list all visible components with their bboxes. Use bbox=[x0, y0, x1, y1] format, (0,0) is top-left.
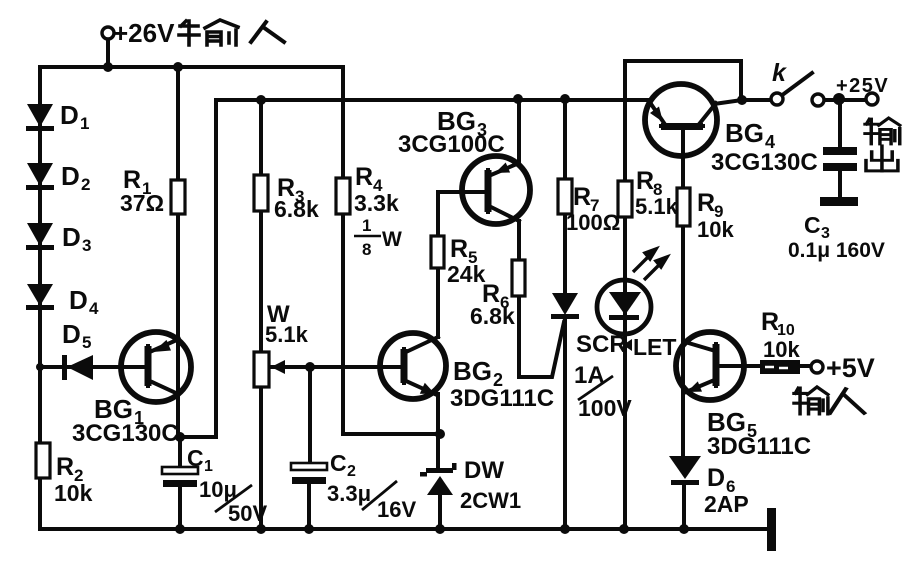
svg-text:D: D bbox=[707, 464, 725, 492]
svg-text:24k: 24k bbox=[447, 261, 486, 287]
svg-text:2: 2 bbox=[81, 175, 90, 194]
svg-text:2: 2 bbox=[347, 463, 356, 480]
svg-text:BG: BG bbox=[453, 356, 492, 386]
svg-text:2CW1: 2CW1 bbox=[460, 488, 521, 513]
svg-text:D: D bbox=[61, 161, 80, 191]
svg-text:R: R bbox=[355, 163, 373, 191]
svg-text:100Ω: 100Ω bbox=[566, 210, 620, 235]
svg-text:D: D bbox=[62, 222, 81, 252]
svg-text:SCR: SCR bbox=[576, 331, 627, 358]
svg-text:10k: 10k bbox=[763, 337, 800, 362]
svg-text:1: 1 bbox=[204, 458, 213, 475]
svg-text:k: k bbox=[772, 59, 787, 87]
svg-text:4: 4 bbox=[89, 299, 99, 318]
svg-text:C: C bbox=[187, 445, 204, 471]
svg-text:3CG130C: 3CG130C bbox=[72, 420, 179, 447]
svg-text:1A: 1A bbox=[574, 362, 605, 389]
svg-text:3DG111C: 3DG111C bbox=[450, 385, 554, 412]
svg-text:3: 3 bbox=[82, 236, 91, 255]
svg-text:50V: 50V bbox=[228, 501, 267, 526]
svg-text:C: C bbox=[804, 212, 821, 238]
svg-text:0.1μ 160V: 0.1μ 160V bbox=[788, 239, 885, 262]
svg-text:+5V: +5V bbox=[826, 353, 875, 383]
svg-text:+25V: +25V bbox=[836, 75, 889, 97]
svg-text:3CG100C: 3CG100C bbox=[398, 131, 505, 158]
svg-text:D: D bbox=[60, 100, 79, 130]
svg-text:37Ω: 37Ω bbox=[120, 190, 164, 216]
svg-text:3.3k: 3.3k bbox=[354, 190, 399, 216]
svg-text:10μ: 10μ bbox=[199, 477, 237, 502]
svg-text:3CG130C: 3CG130C bbox=[711, 149, 818, 176]
svg-text:100V: 100V bbox=[578, 395, 632, 421]
svg-text:BG: BG bbox=[725, 118, 764, 148]
svg-text:DW: DW bbox=[464, 457, 504, 484]
svg-text:+26V: +26V bbox=[113, 18, 175, 48]
svg-text:8: 8 bbox=[362, 240, 371, 259]
svg-text:D: D bbox=[69, 285, 88, 315]
svg-text:3.3μ: 3.3μ bbox=[327, 481, 371, 506]
svg-text:10k: 10k bbox=[54, 480, 93, 506]
svg-text:R: R bbox=[56, 453, 74, 481]
svg-text:C: C bbox=[330, 450, 347, 476]
svg-text:6.8k: 6.8k bbox=[470, 303, 515, 329]
svg-text:10k: 10k bbox=[697, 217, 734, 242]
svg-text:2AP: 2AP bbox=[704, 491, 749, 517]
svg-text:LET: LET bbox=[633, 334, 676, 360]
svg-text:6.8k: 6.8k bbox=[274, 196, 319, 222]
svg-text:3DG111C: 3DG111C bbox=[707, 433, 811, 460]
svg-text:D: D bbox=[62, 319, 81, 349]
svg-text:R: R bbox=[450, 235, 468, 263]
svg-text:R: R bbox=[573, 183, 591, 211]
svg-text:16V: 16V bbox=[377, 497, 416, 522]
svg-text:1: 1 bbox=[362, 216, 371, 235]
svg-text:W: W bbox=[382, 228, 402, 251]
svg-text:R: R bbox=[636, 167, 654, 195]
svg-text:5.1k: 5.1k bbox=[635, 194, 679, 219]
svg-text:1: 1 bbox=[80, 114, 89, 133]
svg-text:5: 5 bbox=[82, 333, 91, 352]
svg-text:R: R bbox=[697, 189, 715, 217]
svg-text:5.1k: 5.1k bbox=[265, 322, 309, 347]
